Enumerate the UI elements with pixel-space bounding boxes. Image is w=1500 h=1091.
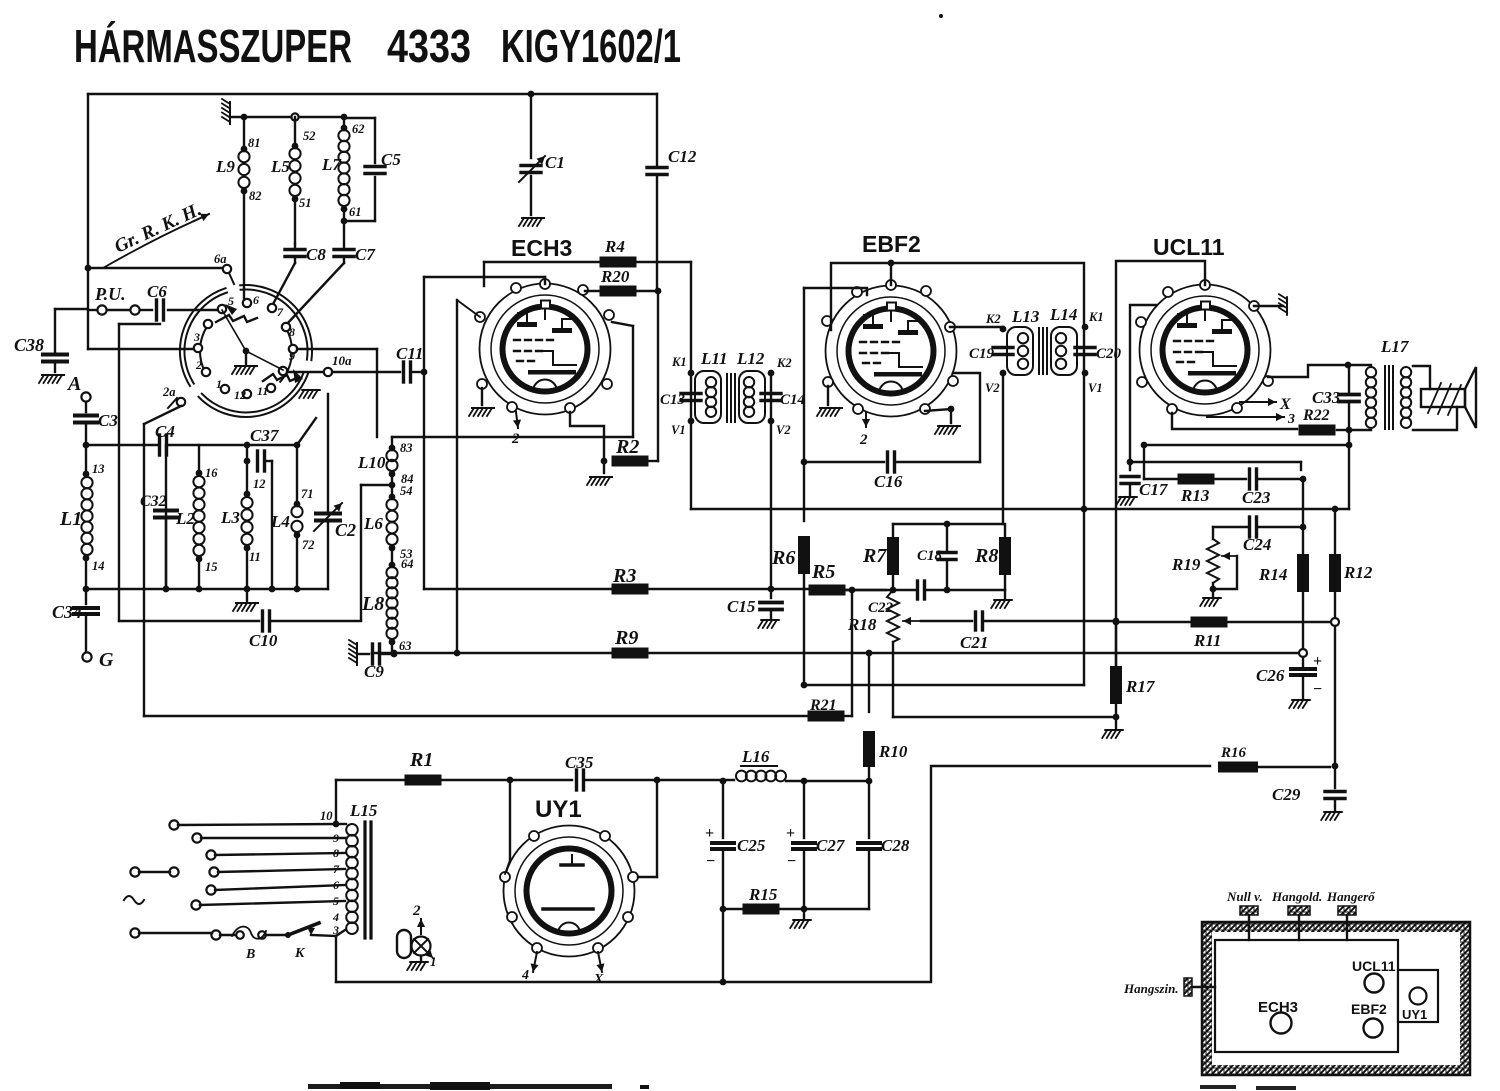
resistor R14: [1258, 554, 1309, 653]
svg-text:51: 51: [299, 196, 312, 210]
inductor L14: [1049, 305, 1077, 375]
svg-text:R10: R10: [878, 742, 908, 761]
resistor R2: [612, 436, 659, 467]
terminal 10a: [287, 353, 352, 376]
ground under C27 R15: [790, 909, 811, 928]
svg-text:Hangerő: Hangerő: [1326, 889, 1376, 904]
transformer L15 core: [365, 822, 371, 938]
wire ECH3 grid cap: [424, 277, 545, 284]
svg-text:UCL11: UCL11: [1352, 958, 1396, 974]
svg-text:L4: L4: [270, 512, 290, 531]
chassis knob Hangold.: [1271, 889, 1322, 940]
svg-text:K2: K2: [985, 312, 1001, 326]
EBF2 screen box: [831, 260, 1084, 509]
wire C25 bottom: [722, 909, 724, 982]
svg-text:C16: C16: [874, 472, 903, 491]
svg-text:C9: C9: [364, 662, 384, 681]
wire plate line to IF: [690, 262, 692, 373]
svg-text:L13: L13: [1011, 307, 1040, 326]
svg-text:C19: C19: [969, 346, 995, 362]
svg-text:C13: C13: [660, 392, 686, 408]
resistor R8: [974, 524, 1011, 590]
wire V2 drop to R7 line: [1002, 373, 1004, 524]
capacitor C37: [244, 418, 316, 589]
svg-text:8: 8: [289, 325, 295, 339]
ground under C1: [519, 218, 544, 226]
svg-text:C20: C20: [1096, 346, 1122, 362]
svg-text:X: X: [593, 972, 604, 987]
svg-text:3: 3: [193, 330, 200, 344]
ground under C17: [1116, 497, 1137, 505]
svg-text:L10: L10: [357, 453, 386, 472]
svg-text:+: +: [705, 825, 714, 842]
svg-text:L14: L14: [1049, 305, 1077, 324]
wire PU drop x119: [119, 324, 160, 621]
svg-text:C35: C35: [565, 753, 594, 772]
svg-text:UY1: UY1: [535, 796, 582, 823]
switch contact circles: [194, 299, 297, 398]
wire R7 top line: [893, 521, 1003, 528]
mains ~ symbol: [124, 896, 144, 904]
wire UCL11 plate step: [1268, 362, 1351, 377]
svg-text:C8: C8: [306, 245, 326, 264]
svg-text:C24: C24: [1243, 535, 1271, 554]
capacitor C9: [357, 644, 397, 681]
wire 6a line: [85, 265, 224, 272]
svg-text:+: +: [786, 825, 795, 842]
svg-text:14: 14: [92, 559, 105, 573]
svg-text:1: 1: [216, 377, 222, 391]
svg-text:L15: L15: [349, 801, 378, 820]
wire C8 to switch contact 7: [272, 263, 295, 306]
ground under R2: [587, 461, 612, 485]
svg-text:C32: C32: [140, 493, 167, 510]
UCL11 screen box: [1116, 261, 1205, 666]
svg-text:C28: C28: [881, 836, 910, 855]
wire bus y716: [144, 715, 807, 717]
wire C4 line: [83, 442, 301, 449]
ground under C15: [758, 620, 779, 628]
capacitor C24: [1213, 517, 1303, 554]
svg-text:2: 2: [195, 358, 202, 372]
svg-text:R12: R12: [1343, 563, 1373, 582]
title text HARMASSZUPER 4333 KIGY1602/1: [74, 20, 681, 72]
IF1 core: [727, 374, 735, 422]
svg-text:72: 72: [302, 538, 315, 552]
inductor L2: [175, 445, 218, 589]
svg-text:3: 3: [1287, 412, 1295, 427]
svg-text:64: 64: [401, 557, 414, 571]
svg-text:R20: R20: [600, 267, 630, 286]
svg-text:L7: L7: [321, 155, 342, 174]
wire 2a bus to R21: [143, 621, 145, 716]
chassis inner board: [1215, 940, 1398, 1052]
svg-text:C3: C3: [98, 411, 118, 430]
switch rotor wedge upper: [216, 304, 257, 322]
svg-text:KIGY1602/1: KIGY1602/1: [501, 20, 681, 72]
inductor L5: [270, 117, 316, 244]
resistor R3: [612, 565, 775, 595]
wire L10-L6 junction: [361, 482, 395, 620]
chassis outline hatched: [1202, 922, 1470, 1075]
switch center and ground: [222, 310, 283, 374]
capacitor C19: [969, 346, 1013, 362]
svg-text:7: 7: [277, 305, 284, 319]
svg-text:9: 9: [289, 349, 295, 363]
svg-text:L9: L9: [215, 157, 235, 176]
inductor L17 secondary: [1401, 367, 1411, 428]
wire R11 line: [1113, 619, 1190, 626]
wire ECH3 pin2 arrow: [511, 412, 521, 447]
resistor R12: [1329, 506, 1373, 616]
capacitor C35: [510, 753, 660, 790]
inductor L4: [270, 445, 315, 589]
svg-text:B: B: [245, 947, 255, 962]
svg-text:54: 54: [400, 484, 413, 498]
svg-text:L12: L12: [736, 349, 765, 368]
voltage selector terminals: [130, 820, 220, 939]
svg-text:EBF2: EBF2: [1351, 1001, 1387, 1017]
svg-text:C25: C25: [737, 836, 766, 855]
capacitor C10: [119, 611, 361, 650]
wire R18 wiper to R17: [0, 0, 1, 1]
wire AVC rail y509: [691, 506, 1349, 513]
svg-text:C18: C18: [917, 548, 943, 564]
svg-text:G: G: [99, 649, 114, 671]
capacitor C21: [921, 612, 1119, 652]
wire rail x1349: [1348, 430, 1350, 509]
chassis tube UY1: [1402, 988, 1427, 1023]
svg-text:2: 2: [511, 431, 520, 447]
terminal G: [82, 649, 114, 671]
capacitor C14: [761, 392, 806, 408]
svg-text:K: K: [294, 946, 306, 961]
svg-text:81: 81: [248, 136, 261, 150]
svg-text:C12: C12: [668, 147, 697, 166]
svg-text:71: 71: [301, 487, 314, 501]
wire K1 drop UCL11 grid: [0, 0, 1, 1]
capacitor C22: [846, 581, 1005, 616]
svg-text:K2: K2: [776, 356, 792, 370]
svg-text:+: +: [1313, 653, 1322, 670]
svg-text:UY1: UY1: [1402, 1007, 1427, 1022]
capacitor C26: [1256, 653, 1322, 698]
ground ECH3 left pin: [469, 388, 494, 416]
wire top rail: [88, 91, 657, 98]
wire R2 to R20 junction: [655, 288, 662, 461]
page bottom smudge left: [308, 1082, 649, 1090]
svg-text:1: 1: [430, 954, 437, 969]
ground under R19: [1200, 598, 1221, 606]
resistor R17: [1110, 626, 1156, 728]
wire feedback line y445: [1141, 442, 1353, 449]
tube UY1: [500, 796, 638, 957]
wire R5 segment: [771, 588, 808, 590]
svg-text:15: 15: [205, 560, 218, 574]
resistor R10: [863, 653, 908, 781]
resistor R22: [1172, 407, 1352, 436]
svg-text:R1: R1: [409, 749, 433, 771]
resistor R11: [1191, 617, 1331, 651]
wire R18 foot line: [893, 716, 1116, 718]
svg-text:A: A: [66, 373, 81, 395]
resistor R19 potentiometer: [1171, 527, 1237, 596]
svg-text:C37: C37: [250, 426, 280, 445]
capacitor C29: [1272, 766, 1345, 810]
fuse B: [232, 927, 266, 962]
ground before C9: [349, 640, 357, 665]
wire ECH3 right side: [612, 322, 633, 437]
svg-text:10a: 10a: [332, 353, 352, 368]
IF2 core: [1039, 328, 1047, 374]
svg-text:R16: R16: [1220, 745, 1247, 761]
svg-text:C33: C33: [1312, 388, 1341, 407]
ground under C29: [1321, 812, 1342, 820]
svg-text:R5: R5: [811, 561, 835, 583]
wire P.U. line: [88, 309, 152, 311]
wire grid leak vertical x424: [421, 277, 428, 589]
svg-text:C14: C14: [780, 392, 806, 408]
svg-text:C2: C2: [335, 520, 356, 540]
capacitor C18: [917, 524, 956, 593]
capacitor C28: [858, 781, 910, 909]
svg-text:L17: L17: [1380, 337, 1410, 356]
capacitor C13: [660, 392, 701, 408]
inductor L17 primary: [1349, 337, 1410, 430]
svg-text:83: 83: [400, 441, 413, 455]
capacitor C16: [801, 373, 980, 491]
capacitor C2 (trimmer): [314, 394, 356, 589]
chassis knob Hangszin: [1123, 978, 1215, 996]
wire grid line y437: [392, 437, 633, 445]
ground EBF2 right pin: [925, 406, 960, 434]
svg-text:L16: L16: [741, 747, 770, 766]
svg-text:16: 16: [205, 466, 218, 480]
svg-text:C34: C34: [52, 602, 82, 622]
svg-text:C7: C7: [355, 245, 376, 264]
resistor R1: [405, 749, 514, 786]
svg-text:62: 62: [352, 122, 365, 136]
capacitor C23: [1242, 469, 1306, 507]
svg-text:K1: K1: [1088, 310, 1104, 324]
svg-text:61: 61: [349, 205, 362, 219]
svg-text:Hangold.: Hangold.: [1271, 889, 1322, 904]
svg-text:6a: 6a: [214, 252, 227, 266]
wire C23 line y462: [1130, 462, 1301, 470]
page speck top right: [939, 14, 943, 18]
svg-text:C1: C1: [545, 153, 565, 172]
ground under L3 bus: [233, 589, 258, 611]
ground under R8: [991, 590, 1012, 608]
wire V2 node: [768, 418, 791, 437]
wire L16 junctions: [801, 778, 873, 785]
svg-text:63: 63: [399, 639, 412, 653]
inductor L10: [357, 441, 414, 486]
svg-text:L3: L3: [220, 508, 240, 527]
transformer L15 winding: [320, 801, 378, 934]
ground UCL11 top right: [1254, 294, 1287, 315]
svg-text:X: X: [1279, 396, 1291, 413]
svg-text:C29: C29: [1272, 785, 1301, 804]
svg-text:C21: C21: [960, 633, 988, 652]
svg-text:R6: R6: [771, 547, 795, 569]
svg-text:4: 4: [332, 910, 339, 924]
svg-text:C6: C6: [147, 282, 167, 301]
wire EBF2 inner left: [804, 288, 867, 462]
svg-text:12: 12: [234, 388, 246, 402]
wire ECH3 cathode to R2: [570, 412, 607, 464]
svg-text:EBF2: EBF2: [862, 231, 921, 257]
svg-text:L1: L1: [59, 508, 82, 530]
chassis knob Hangero: [1326, 889, 1376, 940]
capacitor C5: [344, 118, 401, 221]
svg-text:11: 11: [257, 384, 268, 398]
terminal P.U. right: [130, 305, 139, 314]
svg-text:13: 13: [92, 462, 105, 476]
wire C26 line y653: [372, 649, 1307, 657]
ground under R17: [1102, 730, 1123, 738]
svg-text:L5: L5: [270, 157, 290, 176]
svg-text:Null v.: Null v.: [1226, 889, 1263, 904]
wire L15 top tap: [333, 780, 346, 827]
svg-text:R7: R7: [862, 545, 887, 567]
resistor R21: [808, 590, 853, 722]
resistor R7: [862, 524, 899, 593]
wire EBF2 plate to K2: [950, 326, 1003, 328]
svg-text:R4: R4: [604, 237, 625, 256]
svg-text:ECH3: ECH3: [1258, 999, 1298, 1016]
svg-text:−: −: [706, 853, 715, 870]
svg-text:12: 12: [253, 477, 266, 491]
ground EBF2 left pin: [817, 386, 842, 416]
svg-text:82: 82: [249, 189, 262, 203]
wire V2 node IF2: [985, 370, 1006, 395]
L17 core: [1385, 366, 1393, 429]
terminal 6a: [214, 252, 234, 284]
svg-text:K1: K1: [671, 355, 687, 369]
wire UY1 left feed: [505, 780, 510, 874]
wire K2 node IF2: [985, 312, 1006, 332]
resistor R20: [585, 267, 658, 297]
svg-text:HÁRMASSZUPER: HÁRMASSZUPER: [74, 20, 352, 72]
svg-text:V2: V2: [985, 381, 1000, 395]
capacitor C7: [334, 221, 376, 264]
svg-text:C23: C23: [1242, 488, 1271, 507]
tube EBF2: [822, 231, 958, 417]
wire to contact 3: [88, 348, 194, 350]
switch rotor wedge lower: [263, 369, 303, 383]
wire top coil bus: [230, 113, 347, 120]
wire screen line y685: [804, 684, 1084, 686]
svg-text:V1: V1: [1088, 381, 1103, 395]
svg-text:R2: R2: [615, 436, 639, 458]
chassis tube ECH3: [1258, 999, 1298, 1034]
capacitor C27 electrolytic: [786, 781, 846, 912]
wire C24 column: [1300, 479, 1307, 556]
capacitor C8: [285, 244, 326, 264]
wire K1 node IF2: [1082, 310, 1104, 330]
ground under C26: [1289, 700, 1310, 708]
svg-text:C5: C5: [381, 150, 401, 169]
terminal 2a: [162, 385, 185, 408]
svg-text:C15: C15: [727, 597, 756, 616]
svg-text:−: −: [787, 853, 796, 870]
wire 2a drop: [144, 406, 181, 621]
capacitor C17: [1121, 477, 1169, 500]
svg-text:4: 4: [521, 968, 529, 983]
terminal A: [66, 373, 91, 402]
inductor L11: [695, 349, 727, 423]
svg-text:2: 2: [412, 903, 421, 919]
svg-text:R21: R21: [809, 697, 837, 714]
inductor L6: [363, 484, 413, 562]
tube UCL11: [1136, 234, 1273, 416]
wire contact 9 to oscillator coils: [297, 349, 377, 437]
capacitor C15: [727, 589, 782, 618]
svg-text:R14: R14: [1258, 565, 1287, 584]
wire osc grid vertical x457: [457, 300, 480, 653]
capacitor C38: [14, 309, 86, 372]
svg-text:P.U.: P.U.: [94, 284, 126, 304]
capacitor C3: [75, 402, 118, 445]
inductor L8: [361, 557, 414, 653]
wire K2 to grid line: [770, 373, 772, 589]
wire C35 to L16: [657, 778, 734, 785]
chassis tube EBF2: [1351, 1001, 1387, 1038]
capacitor C33: [1312, 365, 1359, 430]
terminal P.U. left: [94, 284, 126, 315]
svg-text:R17: R17: [1125, 677, 1156, 696]
capacitor C4: [155, 422, 175, 455]
capacitor C20: [1075, 346, 1122, 362]
wire V1 node IF2: [1082, 370, 1103, 395]
svg-text:R9: R9: [614, 627, 638, 649]
chassis UY1 board: [1398, 970, 1438, 1022]
svg-text:L8: L8: [361, 593, 384, 615]
wire V1 node: [671, 373, 694, 509]
loudspeaker: [1413, 366, 1476, 430]
wire L1 top: [85, 445, 87, 474]
svg-text:R11: R11: [1193, 631, 1221, 650]
dial lamp: [397, 903, 437, 970]
svg-text:V1: V1: [671, 423, 686, 437]
svg-text:2: 2: [859, 432, 868, 448]
wire UCL11 grid feed: [1127, 305, 1156, 470]
wire UCL11 X arrow: [1240, 396, 1291, 413]
svg-text:R15: R15: [748, 885, 778, 904]
wire EBF2 drop x1084: [1083, 509, 1085, 685]
svg-text:Hangszin.: Hangszin.: [1123, 981, 1179, 996]
capacitor C12: [647, 147, 697, 175]
resistor R15: [723, 885, 869, 915]
wire K2 node: [768, 356, 792, 376]
wire R3 line: [424, 588, 612, 590]
svg-text:C38: C38: [14, 335, 44, 355]
inductor L7: [321, 117, 365, 224]
svg-text:C11: C11: [396, 344, 423, 363]
resistor R13: [1178, 474, 1247, 506]
svg-text:C17: C17: [1139, 480, 1169, 499]
svg-text:R13: R13: [1180, 486, 1210, 505]
wire left ground bus y589: [83, 586, 328, 593]
wire UY1 right feed: [638, 780, 657, 877]
rotary wave-band switch outer arcs: [180, 285, 312, 417]
switch contact numbers: [193, 293, 295, 402]
tube ECH3: [475, 235, 614, 415]
inductor L1: [59, 462, 105, 589]
L15 tap numbers: [332, 831, 340, 937]
svg-text:6: 6: [253, 293, 259, 307]
